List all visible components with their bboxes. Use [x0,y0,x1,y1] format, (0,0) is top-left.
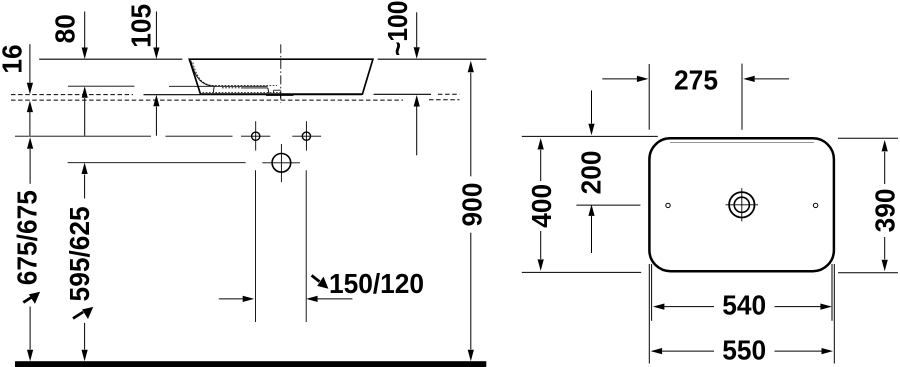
svg-text:595/625: 595/625 [63,206,95,301]
dim 675/675 [29,149,31,350]
centerline basin side view [280,44,282,103]
basin foot step right [268,88,269,93]
hidden outline below basin [266,94,294,96]
oblique arrow 675 [23,292,40,304]
dim 390 [838,138,898,272]
svg-text:16: 16 [0,44,27,73]
svg-text:~100: ~100 [381,1,413,56]
rim level line left [39,58,182,60]
bowl floor level line (80) [68,85,135,87]
countertop dashed bottom-right [429,99,460,101]
tap hole mark right [813,203,817,207]
countertop surface line [144,94,363,96]
dim 80 [84,12,86,136]
basin inner rim line plan view [670,141,814,143]
bowl inner dotted curve [193,63,277,86]
dim 595/625 [84,175,86,350]
svg-text:675/675: 675/675 [11,190,43,285]
hidden drain stub below [280,95,282,98]
svg-text:275: 275 [674,64,718,96]
basin outline plan view [649,138,834,271]
hidden drain outline [274,89,281,91]
floor line [15,361,486,367]
dim 275 [602,64,789,130]
faucet hole right side view [302,132,310,140]
dim 550 [649,264,834,364]
bowl inner profile [191,61,213,87]
dim 16 [29,44,31,136]
dim 400 [522,136,658,272]
svg-text:400: 400 [525,184,557,228]
svg-text:900: 900 [456,183,488,227]
countertop dashed top-right [438,93,460,95]
svg-text:390: 390 [869,188,900,232]
basin foot step left [212,86,215,93]
svg-text:550: 550 [722,334,766,366]
oblique arrow 150/120 [312,275,329,288]
basin foot lower edge [222,87,241,89]
dim ~100 [416,12,418,155]
countertop dashed top-left [11,94,133,96]
oblique arrow 595 [73,307,93,319]
dim 200 [576,90,640,253]
extension line left hole [255,170,257,322]
svg-text:200: 200 [575,150,607,194]
countertop dashed bottom [11,99,403,101]
svg-text:540: 540 [722,289,766,321]
svg-text:80: 80 [49,14,81,43]
dim 150/120 [219,298,353,300]
drain hole side view [272,154,291,173]
rim level line right [378,58,487,60]
svg-text:105: 105 [125,4,157,48]
tap hole mark left [666,203,670,207]
drain plan view [726,188,759,221]
faucet level line 675 [15,135,151,137]
extension line right hole [305,170,307,322]
hidden dotted line lower [203,92,282,94]
basin side view outline [189,59,373,94]
svg-text:150/120: 150/120 [329,267,424,299]
dim 900 [470,73,472,350]
faucet hole left side view [252,132,260,140]
dim 540 [652,264,832,321]
drain level line 595 [68,162,246,164]
dim 105 [155,12,157,136]
